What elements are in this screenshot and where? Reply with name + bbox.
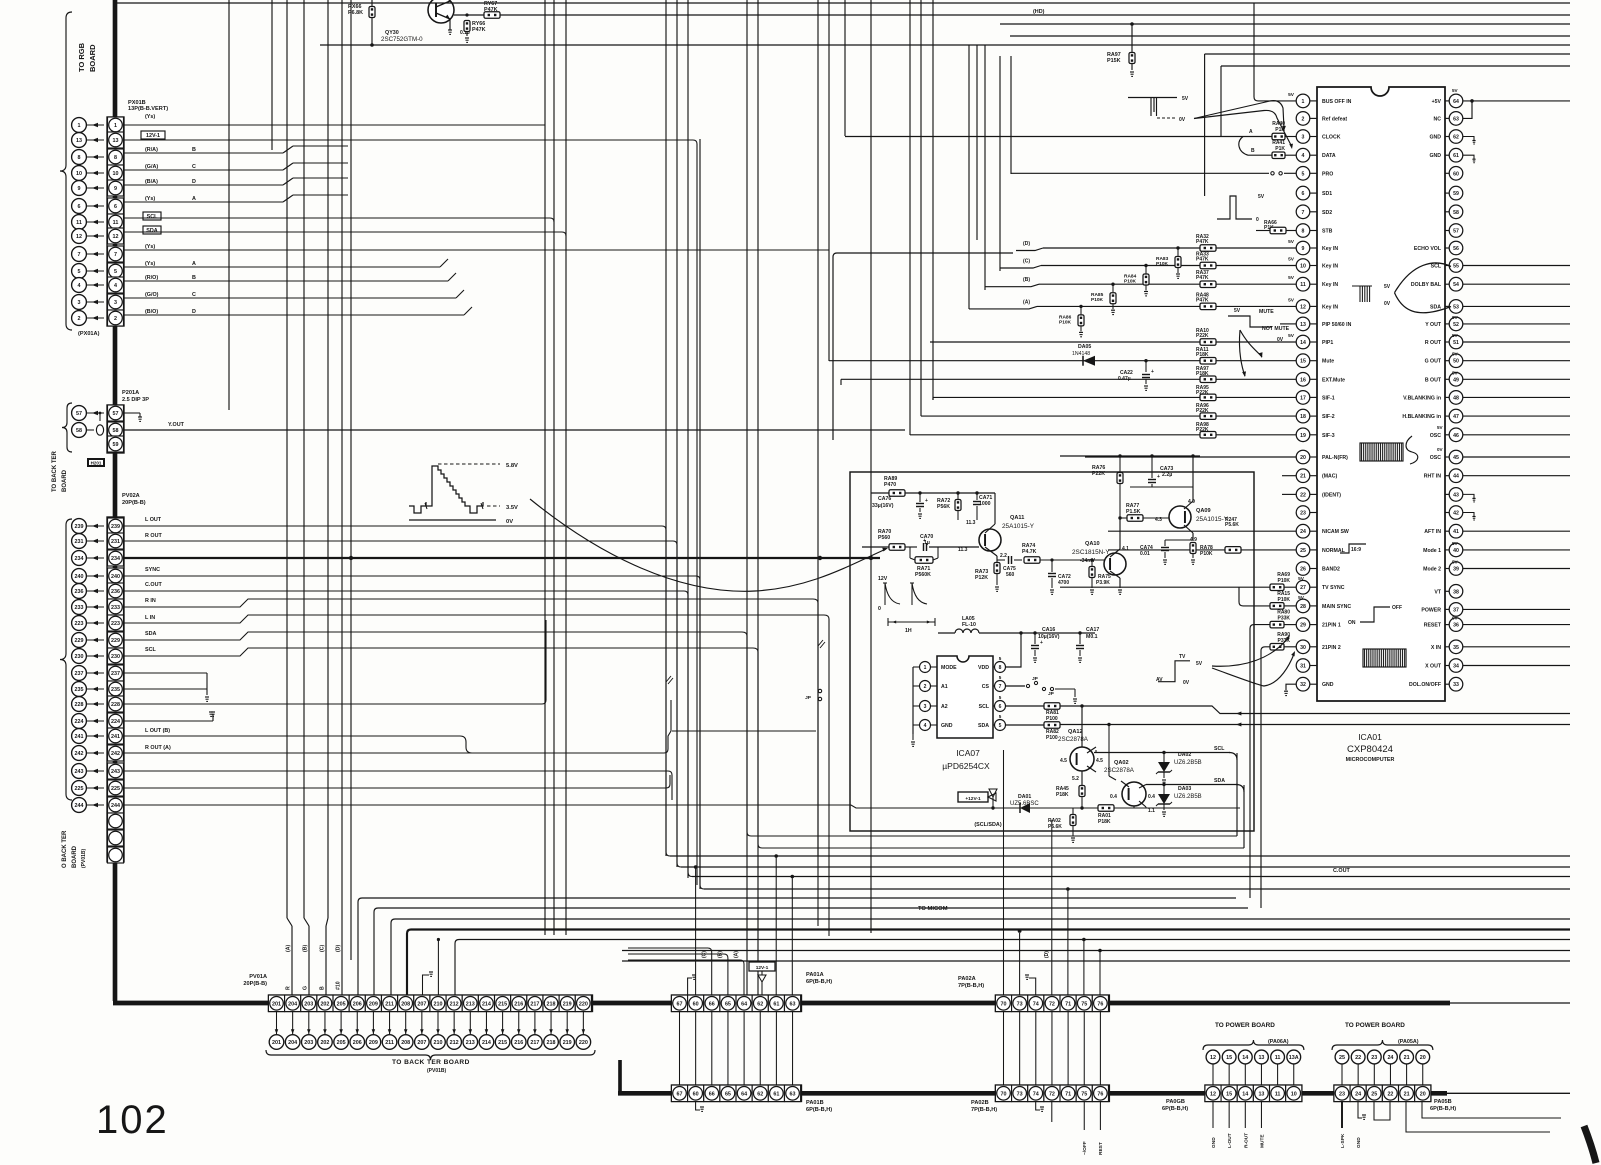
svg-text:GND: GND [1429, 135, 1441, 141]
svg-text:39: 39 [1453, 567, 1459, 573]
svg-text:204: 204 [288, 1002, 297, 1008]
svg-text:2.2: 2.2 [1000, 553, 1007, 559]
svg-text:0V: 0V [1437, 447, 1444, 452]
svg-text:QA09: QA09 [1196, 508, 1211, 514]
svg-text:10: 10 [76, 171, 82, 177]
svg-text:217: 217 [530, 1002, 539, 1008]
svg-text:P47K: P47K [1196, 297, 1209, 303]
svg-text:11: 11 [1275, 1055, 1281, 1061]
svg-text:70: 70 [1001, 1002, 1007, 1008]
svg-text:11: 11 [1275, 1092, 1281, 1098]
svg-text:0.4: 0.4 [1148, 794, 1155, 800]
svg-text:208: 208 [401, 1002, 410, 1008]
svg-text:SDA: SDA [1430, 304, 1441, 310]
svg-text:5V: 5V [1452, 560, 1459, 565]
svg-text:214: 214 [482, 1040, 491, 1046]
svg-text:7P(B-B,H): 7P(B-B,H) [971, 1107, 997, 1113]
svg-text:243: 243 [111, 769, 120, 775]
svg-text:40: 40 [1453, 548, 1459, 554]
svg-text:4: 4 [114, 283, 117, 289]
svg-text:56: 56 [1453, 246, 1459, 252]
svg-text:SCL: SCL [147, 214, 158, 220]
svg-text:H201: H201 [91, 461, 102, 466]
svg-text:229: 229 [111, 638, 120, 644]
svg-text:4.3: 4.3 [1155, 517, 1162, 523]
svg-text:DA03: DA03 [1178, 786, 1191, 792]
svg-text:228: 228 [111, 702, 120, 708]
svg-text:TV SYNC: TV SYNC [1322, 585, 1345, 591]
svg-text:R: R [286, 986, 292, 990]
svg-text:PIP1: PIP1 [1322, 340, 1333, 346]
svg-text:5V: 5V [1196, 661, 1203, 667]
svg-text:DA01: DA01 [1018, 794, 1031, 800]
svg-text:7P(B-B,H): 7P(B-B,H) [958, 983, 984, 989]
svg-text:Y.OUT: Y.OUT [168, 422, 185, 428]
svg-text:Mute: Mute [1322, 359, 1334, 365]
svg-text:62: 62 [757, 1002, 763, 1008]
svg-text:4.5: 4.5 [1096, 758, 1103, 764]
svg-text:R OUT: R OUT [145, 533, 162, 539]
svg-text:209: 209 [369, 1040, 378, 1046]
svg-text:P47K: P47K [1196, 239, 1209, 245]
svg-text:64: 64 [741, 1092, 747, 1098]
svg-text:5: 5 [1302, 171, 1305, 177]
svg-text:59: 59 [1453, 191, 1459, 197]
svg-text:Y OUT: Y OUT [1425, 322, 1442, 328]
svg-text:240: 240 [75, 574, 84, 580]
svg-text:210: 210 [434, 1040, 443, 1046]
svg-text:PAL-N(FR): PAL-N(FR) [1322, 455, 1348, 461]
svg-text:DA02: DA02 [1178, 752, 1191, 758]
svg-text:13: 13 [1258, 1055, 1264, 1061]
svg-text:57: 57 [113, 411, 119, 417]
svg-text:61: 61 [773, 1092, 779, 1098]
svg-text:V.BLANKING in: V.BLANKING in [1403, 395, 1441, 401]
svg-text:MICROCOMPUTER: MICROCOMPUTER [1346, 757, 1395, 763]
svg-text:5V: 5V [1452, 370, 1459, 375]
svg-text:20: 20 [1420, 1092, 1426, 1098]
svg-text:JP: JP [1048, 691, 1055, 697]
svg-text:13: 13 [76, 138, 82, 144]
svg-text:5V: 5V [1452, 541, 1459, 546]
svg-text:P4.7K: P4.7K [1022, 549, 1037, 555]
svg-text:Key IN: Key IN [1322, 264, 1338, 270]
svg-text:G: G [303, 986, 309, 990]
svg-text:A: A [192, 261, 196, 267]
svg-text:PV01A: PV01A [249, 974, 267, 980]
svg-text:(B): (B) [303, 945, 309, 952]
svg-text:42: 42 [1453, 511, 1459, 517]
svg-text:25: 25 [1300, 548, 1306, 554]
svg-text:1.1: 1.1 [1148, 808, 1155, 814]
svg-text:P10K: P10K [1124, 279, 1137, 285]
svg-text:34: 34 [1453, 664, 1459, 670]
svg-text:66: 66 [709, 1092, 715, 1098]
svg-text:(B): (B) [1023, 277, 1030, 283]
svg-text:GND: GND [1211, 1137, 1217, 1148]
svg-text:64: 64 [1453, 99, 1459, 105]
svg-text:7: 7 [999, 684, 1002, 690]
svg-text:11: 11 [1300, 282, 1306, 288]
svg-text:(HD): (HD) [1033, 9, 1045, 15]
svg-text:P10K: P10K [1091, 297, 1104, 303]
svg-text:4: 4 [1302, 153, 1305, 159]
svg-text:6P(B-B,H): 6P(B-B,H) [806, 979, 832, 985]
svg-text:OSC: OSC [1430, 455, 1441, 461]
svg-text:2.5 DIP 3P: 2.5 DIP 3P [122, 397, 149, 403]
svg-text:223: 223 [75, 621, 84, 627]
svg-text:244: 244 [75, 803, 84, 809]
svg-text:PRO: PRO [1322, 171, 1333, 177]
svg-text:6: 6 [999, 704, 1002, 710]
svg-text:17: 17 [1300, 395, 1306, 401]
svg-text:5: 5 [999, 714, 1002, 719]
svg-text:74: 74 [1033, 1092, 1039, 1098]
svg-text:3: 3 [114, 300, 117, 306]
svg-text:202: 202 [320, 1040, 329, 1046]
svg-text:DOLBY BAL: DOLBY BAL [1411, 282, 1442, 288]
svg-text:MODE: MODE [941, 665, 957, 671]
svg-text:CLOCK: CLOCK [1322, 135, 1341, 141]
svg-text:P10K: P10K [1200, 551, 1213, 557]
svg-text:TO BACK TER BOARD: TO BACK TER BOARD [392, 1059, 470, 1066]
svg-text:12: 12 [76, 234, 82, 240]
svg-text:4.5: 4.5 [1060, 758, 1067, 764]
svg-text:225: 225 [111, 786, 120, 792]
svg-text:240: 240 [111, 574, 120, 580]
svg-text:12V-1: 12V-1 [146, 133, 160, 139]
svg-text:(D): (D) [336, 945, 342, 952]
svg-text:24: 24 [1300, 529, 1306, 535]
svg-text:203: 203 [304, 1040, 313, 1046]
svg-text:AFT IN: AFT IN [1424, 529, 1441, 535]
svg-text:207: 207 [417, 1040, 426, 1046]
svg-text:20P(B-B): 20P(B-B) [122, 500, 146, 506]
svg-text:D: D [192, 309, 196, 315]
svg-text:(PV01B): (PV01B) [81, 848, 87, 868]
svg-text:236: 236 [111, 589, 120, 595]
svg-text:+5V: +5V [1432, 99, 1442, 105]
svg-text:15: 15 [1300, 359, 1306, 365]
svg-text:P12K: P12K [975, 575, 988, 581]
svg-text:60: 60 [693, 1002, 699, 1008]
svg-text:TV: TV [1179, 654, 1186, 660]
svg-text:SYNC: SYNC [145, 567, 160, 573]
svg-text:216: 216 [514, 1002, 523, 1008]
svg-text:5V: 5V [1452, 88, 1459, 93]
svg-text:205: 205 [337, 1002, 346, 1008]
svg-text:244: 244 [111, 803, 120, 809]
svg-text:224: 224 [111, 719, 120, 725]
svg-text:6: 6 [1302, 191, 1305, 197]
svg-text:(C): (C) [320, 945, 326, 952]
svg-text:5.8V: 5.8V [506, 463, 518, 469]
svg-text:+: + [1151, 369, 1154, 375]
svg-text:6P(B-B,H): 6P(B-B,H) [1162, 1106, 1188, 1112]
svg-text:UZ6.2B5B: UZ6.2B5B [1174, 794, 1202, 800]
svg-text:72: 72 [1049, 1092, 1055, 1098]
svg-text:61: 61 [1453, 153, 1459, 159]
svg-text:Mode 1: Mode 1 [1423, 548, 1441, 554]
svg-text:L IN: L IN [145, 615, 155, 621]
svg-text:25A1015-Y: 25A1015-Y [1196, 516, 1229, 523]
svg-text:EXT.Mute: EXT.Mute [1322, 377, 1345, 383]
svg-text:JP: JP [805, 695, 812, 701]
svg-text:12V: 12V [878, 576, 888, 582]
svg-text:207: 207 [417, 1002, 426, 1008]
svg-text:10: 10 [1300, 264, 1306, 270]
svg-text:C: C [192, 164, 196, 170]
svg-text:48: 48 [1453, 395, 1459, 401]
svg-text:55: 55 [1453, 264, 1459, 270]
svg-text:B: B [320, 986, 326, 990]
svg-text:P22K: P22K [1196, 333, 1209, 339]
svg-text:ECHO VOL: ECHO VOL [1414, 246, 1442, 252]
svg-text:11: 11 [76, 220, 82, 226]
svg-text:OSC: OSC [1430, 433, 1441, 439]
svg-text:4.1: 4.1 [1122, 546, 1129, 552]
svg-text:(G/A): (G/A) [145, 164, 158, 170]
svg-text:206: 206 [353, 1002, 362, 1008]
svg-text:10: 10 [1291, 1092, 1297, 1098]
svg-text:TO POWER BOARD: TO POWER BOARD [1215, 1022, 1275, 1029]
svg-text:P470: P470 [884, 482, 896, 488]
svg-text:NOT MUTE: NOT MUTE [1262, 326, 1290, 332]
svg-text:41: 41 [1453, 529, 1459, 535]
svg-text:P22K: P22K [1092, 471, 1105, 477]
svg-text:233: 233 [75, 605, 84, 611]
svg-text:O BACK TER: O BACK TER [62, 830, 68, 868]
svg-text:(C): (C) [1023, 259, 1030, 265]
svg-text:219: 219 [563, 1040, 572, 1046]
svg-text:7: 7 [1302, 210, 1305, 216]
svg-text:33: 33 [1453, 682, 1459, 688]
svg-text:11: 11 [113, 220, 119, 226]
svg-text:P100: P100 [1046, 716, 1058, 722]
svg-text:13: 13 [113, 138, 119, 144]
svg-text:223: 223 [111, 621, 120, 627]
svg-text:(A): (A) [734, 951, 740, 958]
svg-text:+: + [1040, 640, 1043, 646]
svg-text:PA0GB: PA0GB [1166, 1099, 1185, 1105]
svg-text:5V: 5V [1437, 425, 1444, 430]
svg-text:PA05B: PA05B [1434, 1099, 1452, 1105]
svg-text:0.01: 0.01 [1140, 551, 1150, 557]
svg-text:VT: VT [1434, 589, 1441, 595]
svg-text:2: 2 [114, 316, 117, 322]
svg-text:X OUT: X OUT [1425, 664, 1442, 670]
svg-text:SCL: SCL [979, 704, 990, 710]
svg-text:POWER: POWER [1421, 607, 1441, 613]
svg-text:65: 65 [725, 1002, 731, 1008]
svg-text:212: 212 [450, 1040, 459, 1046]
svg-text:216: 216 [514, 1040, 523, 1046]
svg-text:VDD: VDD [978, 665, 989, 671]
svg-text:P10K: P10K [1277, 578, 1290, 584]
svg-text:P560: P560 [878, 535, 890, 541]
svg-text:(PA05A): (PA05A) [1398, 1039, 1419, 1045]
svg-text:20: 20 [1420, 1055, 1426, 1061]
svg-text:214: 214 [482, 1002, 491, 1008]
svg-text:213: 213 [466, 1002, 475, 1008]
svg-text:GND: GND [1322, 682, 1334, 688]
svg-text:MUTE: MUTE [1259, 1134, 1265, 1148]
svg-text:2SC2878A: 2SC2878A [1104, 767, 1135, 774]
svg-text:23: 23 [1300, 511, 1306, 517]
svg-text:218: 218 [547, 1040, 556, 1046]
svg-text:2: 2 [78, 316, 81, 322]
svg-text:2SC2878A: 2SC2878A [1058, 736, 1089, 743]
svg-text:218: 218 [547, 1002, 556, 1008]
svg-text:BOARD: BOARD [88, 44, 97, 72]
svg-text:C.OUT: C.OUT [1333, 868, 1350, 874]
svg-text:47: 47 [1453, 414, 1459, 420]
svg-text:75: 75 [1081, 1092, 1087, 1098]
svg-text:12: 12 [1300, 304, 1306, 310]
svg-text:71: 71 [1065, 1092, 1071, 1098]
svg-text:SDA: SDA [146, 228, 157, 234]
svg-text:57: 57 [1453, 229, 1459, 235]
svg-text:229: 229 [75, 638, 84, 644]
svg-text:60: 60 [693, 1092, 699, 1098]
svg-text:2.2µ: 2.2µ [1162, 472, 1172, 478]
svg-text:70: 70 [1001, 1092, 1007, 1098]
svg-text:8: 8 [1302, 229, 1305, 235]
svg-text:ICA01: ICA01 [1358, 732, 1382, 742]
svg-text:(PV01B): (PV01B) [427, 1068, 447, 1074]
svg-text:61: 61 [773, 1002, 779, 1008]
svg-text:ON: ON [1348, 620, 1356, 626]
svg-text:64: 64 [741, 1002, 747, 1008]
svg-text:33µ(16V): 33µ(16V) [872, 503, 894, 509]
svg-text:65: 65 [725, 1092, 731, 1098]
svg-text:242: 242 [75, 751, 84, 757]
svg-text:0V: 0V [1179, 117, 1186, 123]
svg-text:(Ys): (Ys) [145, 114, 155, 120]
svg-text:5.2: 5.2 [1072, 776, 1079, 782]
svg-text:11.3: 11.3 [958, 547, 968, 553]
svg-text:Key IN: Key IN [1322, 282, 1338, 288]
svg-text:X IN: X IN [1431, 645, 1441, 651]
svg-text:35: 35 [1453, 645, 1459, 651]
svg-text:(D): (D) [1023, 241, 1030, 247]
svg-text:PA01A: PA01A [806, 972, 824, 978]
svg-text:(A): (A) [1023, 299, 1030, 305]
svg-text:MUTE: MUTE [1259, 309, 1274, 315]
svg-text:208: 208 [401, 1040, 410, 1046]
svg-text:(IDENT): (IDENT) [1322, 492, 1341, 498]
svg-text:(R/O): (R/O) [145, 275, 158, 281]
svg-text:P33K: P33K [1277, 616, 1290, 622]
svg-text:SD2: SD2 [1322, 210, 1332, 216]
svg-text:(R/A): (R/A) [145, 147, 158, 153]
svg-text:54: 54 [1453, 282, 1459, 288]
svg-text:50: 50 [1453, 359, 1459, 365]
svg-text:2SC752GTM-0: 2SC752GTM-0 [381, 36, 423, 43]
svg-text:SIF-2: SIF-2 [1322, 414, 1335, 420]
svg-text:P10K: P10K [1277, 597, 1290, 603]
svg-text:231: 231 [111, 539, 120, 545]
svg-text:0V: 0V [506, 519, 513, 525]
svg-text:16:9: 16:9 [1351, 547, 1361, 553]
svg-text:P1K: P1K [1275, 146, 1285, 152]
svg-text:13A: 13A [1289, 1055, 1299, 1061]
svg-text:CA16: CA16 [1042, 627, 1055, 633]
svg-text:5V: 5V [1452, 616, 1459, 621]
svg-text:QA12: QA12 [1068, 729, 1083, 735]
svg-text:213: 213 [466, 1040, 475, 1046]
svg-text:52: 52 [1453, 322, 1459, 328]
svg-text:JP: JP [1032, 676, 1039, 682]
svg-text:21PIN 2: 21PIN 2 [1322, 645, 1341, 651]
svg-text:28: 28 [1300, 604, 1306, 610]
svg-text:Key IN: Key IN [1322, 246, 1338, 252]
svg-text:14: 14 [1242, 1055, 1248, 1061]
svg-text:P560K: P560K [915, 572, 931, 578]
svg-text:1: 1 [114, 123, 117, 129]
svg-text:B OUT: B OUT [1425, 377, 1442, 383]
svg-text:5: 5 [999, 723, 1002, 729]
svg-text:+: + [923, 538, 926, 544]
svg-text:235: 235 [75, 687, 84, 693]
svg-text:QA02: QA02 [1114, 760, 1129, 766]
svg-text:25: 25 [1339, 1055, 1345, 1061]
svg-text:+: + [1157, 474, 1160, 480]
svg-text:215: 215 [498, 1040, 507, 1046]
svg-text:73: 73 [1017, 1002, 1023, 1008]
svg-text:+: + [925, 498, 928, 504]
svg-text:Key IN: Key IN [1322, 304, 1338, 310]
svg-text:102: 102 [96, 1098, 169, 1142]
svg-text:5V: 5V [1452, 333, 1459, 338]
svg-text:P10K: P10K [1059, 319, 1072, 325]
svg-text:12V-1: 12V-1 [756, 965, 769, 971]
svg-text:QA10: QA10 [1085, 541, 1100, 547]
svg-text:D: D [192, 179, 196, 185]
svg-text:45: 45 [1453, 455, 1459, 461]
svg-text:B: B [192, 275, 196, 281]
svg-text:(Ys): (Ys) [145, 261, 155, 267]
svg-text:0.4: 0.4 [1110, 794, 1117, 800]
svg-text:203: 203 [304, 1002, 313, 1008]
svg-text:CXP80424: CXP80424 [1347, 744, 1393, 755]
svg-text:23: 23 [1371, 1055, 1377, 1061]
svg-text:DOL.ON/OFF: DOL.ON/OFF [1409, 682, 1441, 688]
svg-text:9: 9 [1302, 246, 1305, 252]
svg-text:209: 209 [369, 1002, 378, 1008]
svg-text:233: 233 [111, 605, 120, 611]
svg-text:PV02A: PV02A [122, 493, 140, 499]
svg-text:REST: REST [1098, 1142, 1104, 1155]
svg-text:8: 8 [78, 155, 81, 161]
svg-text:62: 62 [1453, 135, 1459, 141]
svg-text:51: 51 [1453, 340, 1459, 346]
svg-text:C.OUT: C.OUT [145, 582, 162, 588]
svg-text:L-SPK: L-SPK [1340, 1133, 1346, 1148]
svg-text:RESET: RESET [1424, 623, 1442, 629]
svg-text:73: 73 [1017, 1092, 1023, 1098]
svg-text:P15K: P15K [1107, 58, 1121, 64]
svg-text:#10: #10 [336, 981, 342, 990]
svg-text:DA05: DA05 [1078, 344, 1091, 350]
svg-text:76: 76 [1097, 1002, 1103, 1008]
svg-text:36: 36 [1453, 623, 1459, 629]
svg-text:206: 206 [353, 1040, 362, 1046]
svg-text:49: 49 [1453, 377, 1459, 383]
svg-text:P201A: P201A [122, 390, 139, 396]
svg-text:~/OFF: ~/OFF [1082, 1141, 1088, 1155]
svg-text:13: 13 [1258, 1092, 1264, 1098]
